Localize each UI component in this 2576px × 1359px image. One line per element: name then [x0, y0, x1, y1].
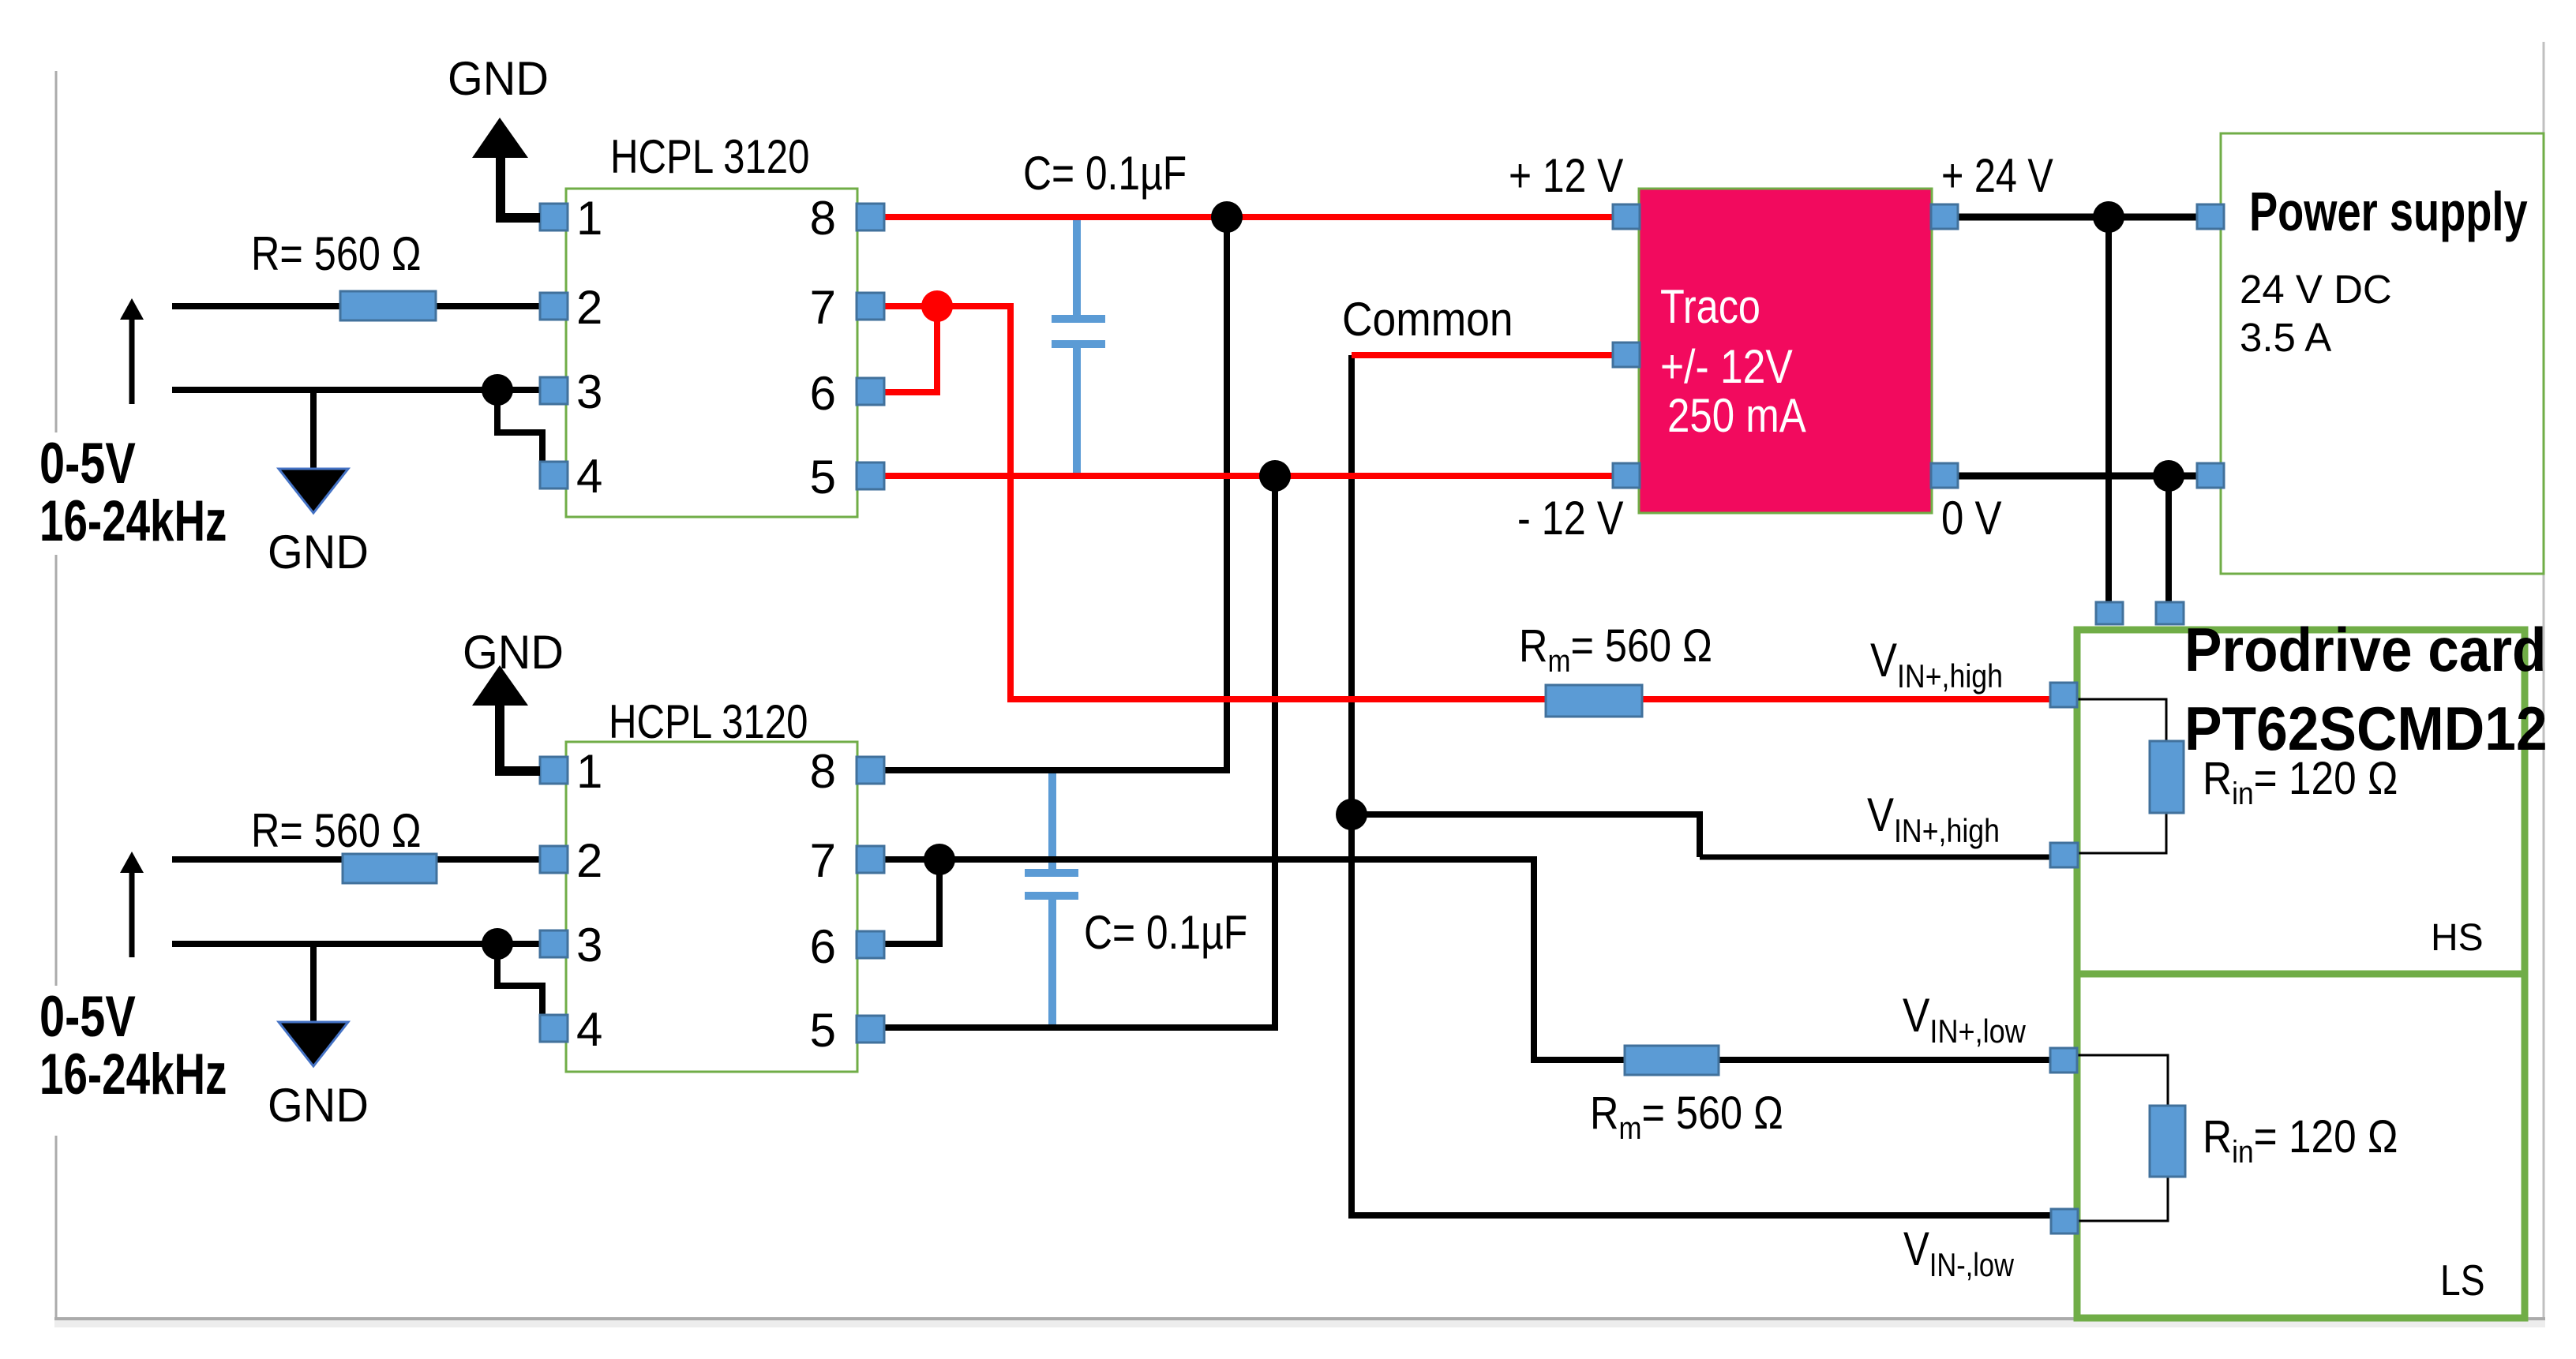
svg-text:GND: GND — [463, 627, 564, 679]
svg-text:250 mA: 250 mA — [1667, 389, 1807, 442]
svg-text:3: 3 — [576, 919, 602, 972]
svg-text:7: 7 — [810, 834, 836, 887]
svg-text:C= 0.1µF: C= 0.1µF — [1023, 147, 1187, 200]
svg-text:5: 5 — [810, 451, 836, 504]
svg-text:GND: GND — [268, 526, 369, 578]
svg-text:2: 2 — [576, 834, 602, 887]
svg-text:16-24kHz: 16-24kHz — [39, 1042, 227, 1106]
svg-text:2: 2 — [576, 281, 602, 334]
svg-text:HCPL 3120: HCPL 3120 — [609, 694, 808, 748]
svg-text:0-5V: 0-5V — [39, 983, 136, 1048]
svg-text:16-24kHz: 16-24kHz — [39, 489, 227, 552]
svg-text:6: 6 — [810, 367, 836, 420]
svg-text:Common: Common — [1342, 294, 1513, 346]
svg-text:Rin= 120 Ω: Rin= 120 Ω — [2203, 1110, 2398, 1170]
svg-text:Power supply: Power supply — [2249, 181, 2528, 242]
svg-text:1: 1 — [576, 192, 602, 245]
svg-text:+/- 12V: +/- 12V — [1660, 339, 1793, 393]
svg-text:GND: GND — [448, 53, 549, 105]
svg-text:1: 1 — [576, 745, 602, 798]
svg-text:3.5 A: 3.5 A — [2240, 315, 2331, 360]
svg-text:8: 8 — [810, 745, 836, 798]
svg-text:+ 12 V: + 12 V — [1509, 149, 1624, 202]
svg-text:0 V: 0 V — [1941, 492, 2002, 545]
svg-text:7: 7 — [810, 281, 836, 334]
svg-text:Prodrive card: Prodrive card — [2184, 615, 2547, 684]
svg-text:R= 560 Ω: R= 560 Ω — [251, 227, 422, 280]
svg-text:LS: LS — [2440, 1256, 2485, 1305]
svg-text:GND: GND — [268, 1080, 369, 1132]
svg-text:PT62SCMD12: PT62SCMD12 — [2184, 694, 2548, 763]
svg-text:- 12 V: - 12 V — [1517, 492, 1623, 545]
svg-text:C= 0.1µF: C= 0.1µF — [1084, 906, 1247, 959]
svg-text:5: 5 — [810, 1004, 836, 1057]
svg-text:R= 560 Ω: R= 560 Ω — [251, 804, 422, 857]
svg-text:HS: HS — [2431, 917, 2484, 959]
svg-text:+ 24 V: + 24 V — [1941, 149, 2053, 202]
svg-text:6: 6 — [810, 920, 836, 973]
svg-text:0-5V: 0-5V — [39, 430, 136, 495]
svg-text:4: 4 — [576, 1003, 602, 1056]
svg-text:8: 8 — [810, 192, 836, 245]
svg-text:HCPL 3120: HCPL 3120 — [610, 129, 810, 183]
svg-text:Traco: Traco — [1660, 280, 1760, 333]
svg-text:3: 3 — [576, 365, 602, 418]
svg-text:24 V DC: 24 V DC — [2240, 267, 2392, 312]
svg-text:4: 4 — [576, 450, 602, 503]
